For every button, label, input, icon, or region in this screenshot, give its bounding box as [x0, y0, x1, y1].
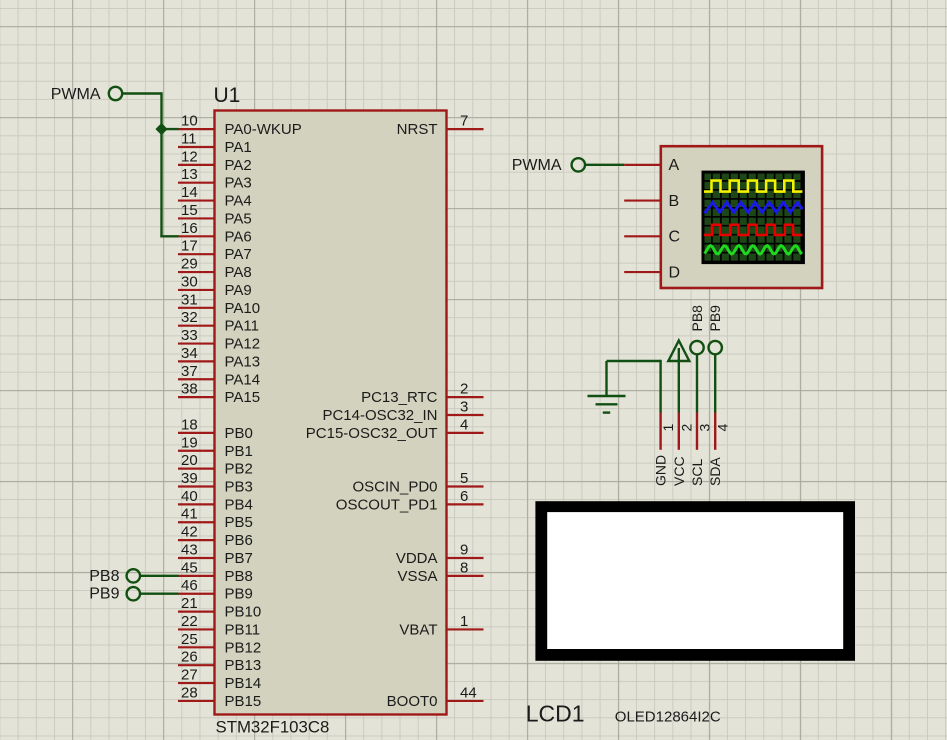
U1 pin 8 VSSA (right): [397, 559, 483, 585]
svg-text:PWMA: PWMA: [512, 157, 562, 174]
oscilloscope input pin D: [624, 264, 680, 281]
svg-text:28: 28: [181, 684, 198, 701]
svg-text:4: 4: [715, 424, 731, 432]
svg-text:22: 22: [181, 613, 198, 630]
U1 pin 22 PB11 (left): [178, 613, 260, 639]
svg-text:PA6: PA6: [225, 228, 252, 245]
U1 pin 6 OSCOUT_PD1 (right): [336, 488, 484, 514]
svg-text:U1: U1: [214, 84, 241, 107]
svg-text:21: 21: [181, 595, 198, 612]
terminal PWMA (top-left): [51, 86, 122, 103]
U1 pin 3 PC14-OSC32_IN (right): [322, 399, 483, 425]
svg-text:41: 41: [181, 506, 198, 523]
svg-text:PB10: PB10: [225, 604, 262, 621]
svg-text:27: 27: [181, 667, 198, 684]
U1 pin 38 PA15 (left): [178, 381, 260, 407]
svg-text:PA13: PA13: [225, 353, 261, 370]
svg-text:OLED12864I2C: OLED12864I2C: [615, 709, 721, 726]
U1 pin 20 PB2 (left): [178, 452, 253, 478]
U1 pin 15 PA5 (left): [178, 202, 252, 228]
U1 pin 44 BOOT0 (right): [387, 684, 484, 710]
svg-text:PA12: PA12: [225, 336, 261, 353]
svg-text:SDA: SDA: [707, 457, 723, 486]
svg-text:15: 15: [181, 202, 198, 219]
U1 pin 26 PB13 (left): [178, 649, 261, 675]
svg-text:PB6: PB6: [225, 532, 253, 549]
svg-text:VBAT: VBAT: [399, 621, 437, 638]
U1 pin 18 PB0 (left): [178, 416, 253, 442]
svg-text:PA2: PA2: [225, 157, 252, 174]
svg-text:PA11: PA11: [225, 318, 259, 335]
U1 pin 31 PA10 (left): [178, 291, 260, 317]
power symbol VCC (up arrow): [668, 341, 689, 362]
svg-text:16: 16: [181, 220, 198, 237]
svg-text:PB11: PB11: [225, 621, 261, 638]
svg-text:11: 11: [181, 130, 197, 147]
terminal PB8 (above header pin 3): [689, 305, 705, 354]
svg-text:8: 8: [460, 559, 468, 576]
svg-text:PB14: PB14: [225, 675, 262, 692]
svg-text:32: 32: [181, 309, 198, 326]
terminal PB9 (above header pin 4): [707, 305, 723, 354]
U1 pin 33 PA12 (left): [178, 327, 260, 353]
svg-text:PB9: PB9: [89, 586, 119, 603]
svg-text:PC15-OSC32_OUT: PC15-OSC32_OUT: [306, 425, 438, 442]
trace channel B blue wave: [705, 202, 803, 212]
U1 pin 34 PA13 (left): [178, 345, 260, 371]
svg-text:PA1: PA1: [225, 139, 252, 156]
svg-text:PB5: PB5: [225, 514, 253, 531]
svg-text:44: 44: [460, 684, 477, 701]
U1 pin 21 PB10 (left): [178, 595, 261, 621]
svg-text:GND: GND: [653, 455, 669, 486]
svg-text:2: 2: [460, 381, 468, 398]
U1 pin 19 PB1 (left): [178, 434, 253, 460]
svg-text:43: 43: [181, 541, 198, 558]
svg-text:19: 19: [181, 434, 198, 451]
header pin 1 GND: [653, 413, 677, 487]
svg-text:B: B: [669, 193, 680, 210]
wire PB8 terminal to pin 45: [140, 575, 179, 577]
svg-text:10: 10: [181, 113, 198, 130]
svg-text:PA7: PA7: [225, 246, 252, 263]
svg-text:A: A: [669, 157, 680, 174]
svg-text:20: 20: [181, 452, 198, 469]
wire PWMA horizontal segment: [122, 92, 162, 94]
trace channel A yellow square wave: [704, 181, 802, 192]
wire header pin 1 vertical: [659, 360, 661, 413]
svg-text:PB7: PB7: [225, 550, 253, 567]
svg-text:40: 40: [181, 488, 198, 505]
U1 pin 11 PA1 (left): [178, 130, 252, 156]
svg-text:PA9: PA9: [225, 282, 252, 299]
svg-text:4: 4: [460, 416, 468, 433]
svg-text:PB1: PB1: [225, 443, 253, 460]
oscilloscope input pin A: [624, 157, 679, 174]
svg-text:VSSA: VSSA: [397, 568, 437, 585]
U1 pin 9 VDDA (right): [396, 541, 484, 567]
svg-text:PA0-WKUP: PA0-WKUP: [225, 121, 302, 138]
header pin 3 SCL: [689, 413, 713, 487]
svg-text:18: 18: [181, 416, 198, 433]
header pin 2 VCC: [671, 413, 695, 487]
svg-text:PA5: PA5: [225, 210, 252, 227]
junction dot at PA0 branch: [155, 123, 167, 135]
trace channel C red square wave: [704, 225, 802, 235]
svg-text:34: 34: [181, 345, 198, 362]
svg-text:42: 42: [181, 524, 198, 541]
U1 pin 25 PB12 (left): [178, 631, 261, 657]
U1 pin 2 PC13_RTC (right): [361, 381, 483, 407]
svg-text:3: 3: [697, 424, 713, 432]
U1 pin 4 PC15-OSC32_OUT (right): [306, 416, 484, 442]
svg-text:14: 14: [181, 184, 198, 201]
svg-text:C: C: [669, 229, 681, 246]
svg-text:PA3: PA3: [225, 175, 252, 192]
U1 pin 40 PB4 (left): [178, 488, 253, 514]
LCD1 screen (white): [547, 512, 843, 649]
U1 pin 37 PA14 (left): [178, 363, 260, 389]
svg-text:D: D: [669, 264, 681, 281]
U1 pin 30 PA9 (left): [178, 273, 252, 299]
U1 pin 43 PB7 (left): [178, 541, 253, 567]
svg-text:9: 9: [460, 541, 468, 558]
U1 pin 41 PB5 (left): [178, 506, 253, 532]
U1 pin 45 PB8 (left): [178, 559, 253, 585]
svg-text:5: 5: [460, 470, 468, 487]
oscilloscope screen graticule: [703, 172, 803, 263]
svg-text:OSCOUT_PD1: OSCOUT_PD1: [336, 496, 438, 513]
svg-text:30: 30: [181, 273, 198, 290]
svg-text:PB3: PB3: [225, 479, 253, 496]
oscilloscope screen background: [703, 172, 803, 263]
svg-text:37: 37: [181, 363, 198, 380]
svg-text:26: 26: [181, 649, 198, 666]
svg-text:PB0: PB0: [225, 425, 253, 442]
svg-text:12: 12: [181, 148, 198, 165]
U1 pin 42 PB6 (left): [178, 524, 253, 550]
svg-text:OSCIN_PD0: OSCIN_PD0: [352, 479, 437, 496]
wire branch to pin PA6: [160, 235, 178, 237]
U1 pin 32 PA11 (left): [178, 309, 259, 335]
terminal PWMA (at oscilloscope): [512, 157, 585, 174]
U1 pin 10 PA0-WKUP (left): [178, 113, 302, 139]
svg-text:PA10: PA10: [225, 300, 261, 317]
svg-text:25: 25: [181, 631, 198, 648]
U1 pin 5 OSCIN_PD0 (right): [352, 470, 483, 496]
svg-text:PB9: PB9: [225, 586, 253, 603]
U1 pin 16 PA6 (left): [178, 220, 252, 246]
svg-text:38: 38: [181, 381, 198, 398]
trace channel D green sine wave: [705, 246, 803, 254]
svg-text:PA8: PA8: [225, 264, 252, 281]
svg-text:STM32F103C8: STM32F103C8: [216, 718, 330, 737]
U1 pin 27 PB14 (left): [178, 667, 261, 693]
wire header pin 2 vertical: [678, 361, 680, 413]
svg-text:VDDA: VDDA: [396, 550, 438, 567]
svg-text:PA15: PA15: [225, 389, 261, 406]
U1 pin 14 PA4 (left): [178, 184, 252, 210]
wire header pin 3 vertical: [696, 354, 698, 413]
svg-text:6: 6: [460, 488, 468, 505]
svg-text:45: 45: [181, 559, 198, 576]
oscilloscope input pin B: [624, 193, 679, 210]
svg-text:PA4: PA4: [225, 193, 252, 210]
svg-text:PC14-OSC32_IN: PC14-OSC32_IN: [322, 407, 437, 424]
terminal PB9 (left): [89, 586, 140, 603]
svg-text:PB15: PB15: [225, 693, 262, 710]
wire branch to pin PA0: [162, 128, 179, 130]
U1 pin 39 PB3 (left): [178, 470, 253, 496]
svg-text:13: 13: [181, 166, 198, 183]
svg-text:2: 2: [678, 424, 694, 432]
U1 pin 7 NRST (right): [397, 113, 484, 139]
svg-text:3: 3: [460, 399, 468, 416]
svg-text:LCD1: LCD1: [526, 701, 585, 727]
svg-text:PB8: PB8: [689, 305, 705, 332]
svg-text:PC13_RTC: PC13_RTC: [361, 389, 438, 406]
svg-text:PB13: PB13: [225, 657, 262, 674]
svg-text:39: 39: [181, 470, 198, 487]
svg-text:PB8: PB8: [225, 568, 253, 585]
svg-text:PA14: PA14: [225, 371, 261, 388]
svg-text:PB8: PB8: [89, 568, 119, 585]
svg-text:PWMA: PWMA: [51, 86, 101, 103]
LCD1 display body (black frame): [535, 501, 855, 661]
U1 pin 1 VBAT (right): [399, 613, 483, 639]
svg-text:PB4: PB4: [225, 496, 253, 513]
svg-text:VCC: VCC: [671, 456, 687, 486]
U1 pin 28 PB15 (left): [178, 684, 261, 710]
svg-text:NRST: NRST: [397, 121, 438, 138]
U1 pin 17 PA7 (left): [178, 238, 252, 264]
wire PWMA to scope input A: [585, 164, 625, 166]
U1 pin 12 PA2 (left): [178, 148, 252, 174]
svg-text:7: 7: [460, 113, 468, 130]
U1 pin 13 PA3 (left): [178, 166, 252, 192]
svg-text:PB2: PB2: [225, 461, 253, 478]
wire ground to header pin 1: [607, 360, 662, 362]
U1 pin 46 PB9 (left): [178, 577, 253, 603]
svg-text:17: 17: [181, 238, 198, 255]
ground symbol: [588, 361, 626, 413]
svg-text:46: 46: [181, 577, 198, 594]
header pin 4 SDA: [707, 413, 731, 487]
wire header pin 4 vertical: [714, 354, 716, 413]
svg-text:PB12: PB12: [225, 639, 262, 656]
svg-text:1: 1: [660, 424, 676, 432]
wire PB9 terminal to pin 46: [140, 593, 179, 595]
wire vertical trunk PWMA to PA6 row: [160, 92, 162, 236]
svg-text:1: 1: [460, 613, 468, 630]
microcontroller U1 body: [215, 111, 447, 715]
oscilloscope body: [661, 146, 822, 288]
U1 pin 29 PA8 (left): [178, 256, 252, 282]
terminal PB8 (left): [89, 568, 140, 585]
svg-text:BOOT0: BOOT0: [387, 693, 438, 710]
svg-text:33: 33: [181, 327, 198, 344]
svg-text:29: 29: [181, 256, 198, 273]
svg-text:PB9: PB9: [707, 305, 723, 332]
oscilloscope input pin C: [624, 229, 680, 246]
svg-text:31: 31: [181, 291, 198, 308]
svg-text:SCL: SCL: [689, 459, 705, 486]
